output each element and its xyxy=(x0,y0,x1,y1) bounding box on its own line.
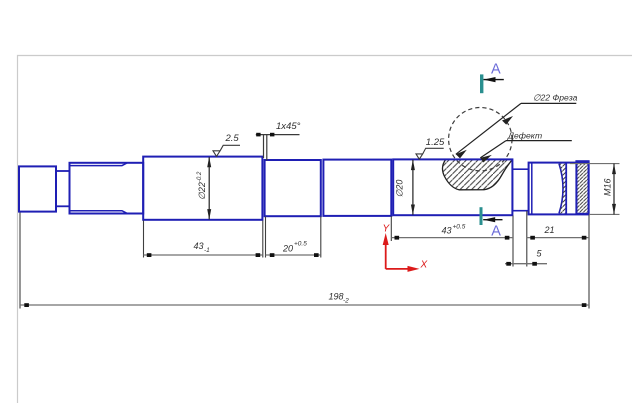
svg-text:+0.5: +0.5 xyxy=(294,241,307,248)
svg-text:-2: -2 xyxy=(343,298,349,305)
shaft section D xyxy=(323,160,391,216)
relief groove xyxy=(512,169,528,211)
extension line 43 left xyxy=(143,221,145,258)
svg-text:-0.2: -0.2 xyxy=(197,171,203,182)
M16 extension lines xyxy=(570,163,620,165)
svg-text:5: 5 xyxy=(537,249,543,259)
section arrow bottom xyxy=(483,219,502,221)
thread minor line bottom xyxy=(70,211,127,214)
extension line at 321 xyxy=(320,217,322,258)
leader: defect label xyxy=(480,141,572,158)
extension lines at 263 xyxy=(262,221,264,258)
svg-text:2.5: 2.5 xyxy=(225,133,240,144)
section plane bar bottom xyxy=(480,207,483,225)
red coordinate system Y axis xyxy=(385,240,387,269)
svg-text:A: A xyxy=(491,61,501,77)
shaft section E dia20 xyxy=(393,159,512,215)
svg-text:-1: -1 xyxy=(204,247,210,254)
shaft threaded section (left) outer xyxy=(70,163,144,214)
end collar outline xyxy=(576,161,588,214)
dimension 5 (row y=263.7) xyxy=(505,263,547,265)
svg-text:Дефект: Дефект xyxy=(507,130,542,140)
section arrow top xyxy=(484,79,504,81)
svg-text:43: 43 xyxy=(194,241,204,251)
svg-text:M16: M16 xyxy=(603,178,613,196)
leader: cutter label xyxy=(456,103,577,154)
svg-text:1.25: 1.25 xyxy=(426,137,445,148)
milled pocket hatch on section E xyxy=(442,160,512,190)
roughness symbol 1.25 xyxy=(416,148,444,159)
groove edge line 2 xyxy=(575,161,577,215)
dimension 20+0.5 (row y=255) xyxy=(266,254,321,256)
defect arrowhead xyxy=(480,155,492,163)
thread runout arc (right thread section) xyxy=(559,164,563,214)
leader arrowhead at pocket xyxy=(456,150,467,159)
cutter dashed circle xyxy=(449,108,512,171)
section plane bar top xyxy=(480,74,483,93)
end collar hatch xyxy=(576,162,588,214)
shaft section C xyxy=(265,160,321,216)
dimension 21 (row y=237.6) xyxy=(527,237,589,239)
extension line 198 left xyxy=(19,213,21,309)
M16 text xyxy=(603,178,613,196)
extension line at 589 xyxy=(588,215,590,309)
extension line at 526.8 xyxy=(526,211,528,267)
extension line at 391.5 xyxy=(390,216,392,241)
thread minor line top xyxy=(70,163,127,166)
red coordinate system X axis xyxy=(386,268,412,270)
svg-text:21: 21 xyxy=(544,225,555,235)
shaft thread section (right) xyxy=(529,163,589,215)
shaft section dia22 xyxy=(143,157,262,220)
svg-text:43: 43 xyxy=(442,226,452,236)
extension line at 513 xyxy=(512,215,514,266)
dimension 43 (row y=255) xyxy=(144,254,263,256)
svg-text:X: X xyxy=(420,260,428,271)
dimension 198 (row y=305) xyxy=(20,304,589,306)
thread chamfer line xyxy=(531,163,533,215)
svg-text:Y: Y xyxy=(383,224,391,235)
svg-text:∅20: ∅20 xyxy=(395,180,405,198)
leader arrowhead on circle xyxy=(502,116,513,125)
svg-text:1x45°: 1x45° xyxy=(276,121,301,132)
chamfer callout 1x45 xyxy=(256,135,300,161)
dia20 dimension line xyxy=(412,160,414,215)
svg-text:∅22: ∅22 xyxy=(197,182,207,200)
dia20 text xyxy=(395,180,405,198)
svg-text:20: 20 xyxy=(282,244,293,254)
milled pocket outline xyxy=(442,160,512,190)
svg-text:+0.5: +0.5 xyxy=(453,224,466,231)
groove edge line 1 xyxy=(565,163,567,215)
shaft block 1 (left end) xyxy=(19,166,56,211)
thread crescent hatch xyxy=(559,164,566,214)
M16 dimension line xyxy=(613,164,615,215)
roughness symbol 2.5 xyxy=(213,145,240,156)
dimension 43+0.5 (row y=237.6) xyxy=(391,237,513,239)
shaft neck 1 xyxy=(56,171,70,206)
chamfer callout dots xyxy=(256,133,260,137)
dia22 dimension line xyxy=(208,157,210,219)
svg-text:∅22 Фреза: ∅22 Фреза xyxy=(533,93,578,103)
dia22 text xyxy=(197,171,207,200)
svg-text:198: 198 xyxy=(329,292,344,302)
